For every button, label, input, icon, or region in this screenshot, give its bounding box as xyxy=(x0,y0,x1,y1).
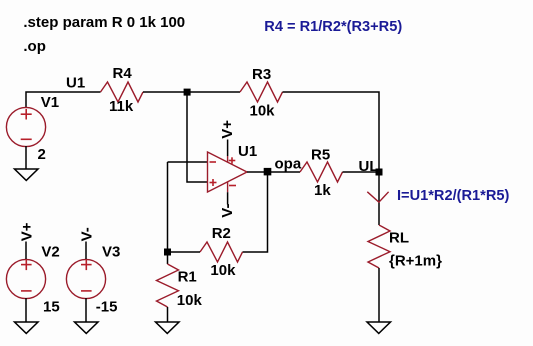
svg-text:RL: RL xyxy=(389,229,409,246)
resistor RL xyxy=(368,225,390,268)
wire op-amp output to R5 xyxy=(247,171,300,173)
svg-text:R2: R2 xyxy=(212,225,231,242)
op-amp V+ supply mark xyxy=(229,160,236,162)
wire R4 to node A xyxy=(143,91,187,93)
wire inverting input stub xyxy=(168,161,208,163)
svg-text:V+: V+ xyxy=(219,120,236,139)
junction node A xyxy=(184,89,191,96)
svg-text:U1: U1 xyxy=(66,74,85,91)
svg-text:11k: 11k xyxy=(109,98,134,115)
V2 plus mark xyxy=(21,264,32,266)
V3 plus mark xyxy=(81,264,92,266)
svg-text:V+: V+ xyxy=(18,222,35,241)
wire V3 top xyxy=(85,242,87,260)
V2 minus mark xyxy=(21,290,32,292)
svg-text:U1: U1 xyxy=(238,143,257,160)
ground below V3 xyxy=(75,322,99,333)
V1 plus mark xyxy=(21,113,32,115)
wire R2 to node B xyxy=(168,251,201,253)
resistor R3 xyxy=(240,82,283,102)
voltage source V2 xyxy=(6,259,45,298)
svg-text:{R+1m}: {R+1m} xyxy=(389,252,442,269)
wire V- supply xyxy=(227,192,229,204)
junction node UL xyxy=(376,169,383,176)
pin V- supply xyxy=(227,182,229,192)
wire node A to R3 xyxy=(187,91,240,93)
junction node opa xyxy=(264,168,272,176)
V1 minus mark xyxy=(21,138,32,140)
wire R3 to UL rail xyxy=(283,92,380,172)
ground below V2 xyxy=(15,322,39,333)
junction node B xyxy=(164,249,171,256)
svg-text:1k: 1k xyxy=(314,182,331,199)
svg-text:R3: R3 xyxy=(252,66,271,83)
svg-text:10k: 10k xyxy=(210,262,236,279)
resistor R1 xyxy=(157,264,179,307)
svg-text:R5: R5 xyxy=(311,146,330,163)
svg-text:V2: V2 xyxy=(41,244,59,261)
ground below RL xyxy=(367,322,391,333)
resistor R5 xyxy=(300,162,343,182)
wire UL down to RL xyxy=(378,172,380,225)
svg-text:15: 15 xyxy=(43,299,60,316)
svg-text:10k: 10k xyxy=(177,292,203,309)
resistor R4 xyxy=(101,82,144,102)
wire node A down to op-amp noninverting input xyxy=(187,92,208,182)
wire V3 bottom xyxy=(85,298,87,322)
current arrow xyxy=(367,192,388,202)
svg-text:V-: V- xyxy=(219,204,236,218)
wire node B to R1 xyxy=(167,252,169,264)
wire V2 bottom xyxy=(25,298,27,322)
svg-text:R4: R4 xyxy=(113,65,133,82)
V3 minus mark xyxy=(81,290,92,292)
svg-text:UL: UL xyxy=(359,158,379,175)
svg-text:-15: -15 xyxy=(96,299,118,316)
op-amp minus input mark xyxy=(210,161,217,163)
wire RL to ground xyxy=(378,268,380,322)
wire feedback vertical xyxy=(167,162,169,252)
op-amp plus input mark xyxy=(210,182,217,184)
ground below R1 xyxy=(156,322,180,333)
wire V2 top xyxy=(25,242,27,260)
op-amp V- supply mark xyxy=(229,185,236,187)
svg-text:10k: 10k xyxy=(250,103,276,120)
svg-text:opa: opa xyxy=(275,156,302,173)
svg-text:V3: V3 xyxy=(102,244,120,261)
svg-text:V-: V- xyxy=(78,227,95,241)
resistor R2 xyxy=(200,242,243,262)
wire V+ supply xyxy=(227,140,229,157)
voltage source V3 xyxy=(66,259,105,298)
svg-text:2: 2 xyxy=(38,146,46,163)
svg-text:I=U1*R2/(R1*R5): I=U1*R2/(R1*R5) xyxy=(397,188,509,204)
op-amp U1 body xyxy=(208,152,248,192)
svg-text:R4 = R1/R2*(R3+R5): R4 = R1/R2*(R3+R5) xyxy=(264,19,402,35)
wire V1 top to R4 xyxy=(26,92,101,108)
wire R1 to ground xyxy=(167,307,169,322)
svg-text:.step param R 0 1k 100: .step param R 0 1k 100 xyxy=(23,14,185,31)
svg-text:.op: .op xyxy=(23,38,46,55)
svg-text:R1: R1 xyxy=(178,269,197,286)
wire V1 to ground xyxy=(25,146,27,169)
ground below V1 xyxy=(15,169,39,180)
svg-text:V1: V1 xyxy=(41,94,59,111)
wire opa down to R2 xyxy=(243,172,268,252)
pin V+ supply xyxy=(227,156,229,162)
wire R5 to UL xyxy=(343,171,380,173)
voltage source V1 xyxy=(6,107,45,146)
